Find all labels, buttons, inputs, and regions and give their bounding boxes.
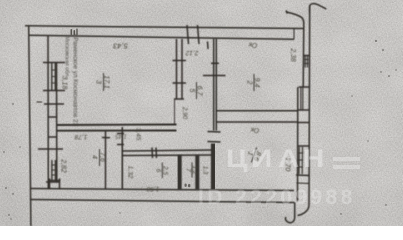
right wall glazing line mid xyxy=(301,87,303,110)
bath label 6/2,5 xyxy=(161,163,163,179)
kitchen door leaf xyxy=(174,99,176,125)
left window glazing bar lower ladder xyxy=(52,160,56,180)
closet right thick dark wall xyxy=(211,144,216,190)
hall wall tick y133.5 xyxy=(117,133,124,135)
left window tick y137 xyxy=(48,136,57,138)
bath top wall lower line xyxy=(122,154,213,157)
svg-text:2,82: 2,82 xyxy=(60,158,67,173)
right wall tick y87 xyxy=(299,86,310,88)
room 3 label 3/17,1 xyxy=(103,73,105,91)
top wall right end cap xyxy=(293,28,295,39)
watermark logo bars xyxy=(333,157,360,162)
svg-text:г.Раменское ул.Космонавтов 23: г.Раменское ул.Космонавтов 23 xyxy=(72,34,79,126)
faint residue text near wc bottom xyxy=(185,184,191,188)
right wall glazing bar lower ladder xyxy=(299,147,303,174)
right exterior wall: outer line xyxy=(308,5,311,205)
svg-text:Ок: Ок xyxy=(250,126,260,134)
room 2 label 2/9,4 xyxy=(253,74,255,91)
svg-text:1,3: 1,3 xyxy=(202,166,208,175)
wc/closet divider dark band xyxy=(195,155,199,190)
kitchen wall door tick y141.5 xyxy=(208,141,221,144)
left window tick y104 xyxy=(44,103,64,105)
left window glazing bar upper ladder xyxy=(52,63,56,90)
top wall dim tick x187.5 xyxy=(187,25,189,44)
room number fraction labels xyxy=(91,73,263,178)
svg-text:1,32: 1,32 xyxy=(127,166,134,179)
bottom exterior wall: lower line xyxy=(30,200,295,203)
left window tick y117 xyxy=(48,116,57,118)
left exterior wall: inner line xyxy=(47,36,49,189)
svg-text:1,2: 1,2 xyxy=(191,165,198,174)
right wall tick y122.5 xyxy=(298,122,309,124)
svg-text:1,50: 1,50 xyxy=(146,185,159,192)
svg-text:1,45: 1,45 xyxy=(115,133,127,139)
bottom break outer curve xyxy=(298,205,310,216)
interior main wall upper line xyxy=(57,124,177,127)
small tick below top wall x207.5 xyxy=(207,42,210,50)
corridor tick near x105 xyxy=(102,137,110,139)
small tick left wall y102 xyxy=(37,101,43,103)
bottom exterior wall: upper line xyxy=(30,189,294,191)
kitchen left wall cap xyxy=(174,98,184,100)
right exterior wall: inner line lower xyxy=(297,87,299,202)
room 1 label 1/8,6 (slanted) xyxy=(244,145,263,165)
room 4 label 4/7,6 xyxy=(99,149,101,166)
right wall tick y146 xyxy=(297,145,310,147)
right wall tick y110 xyxy=(298,109,309,111)
svg-text:2,90: 2,90 xyxy=(181,106,188,120)
top break squiggle left curve xyxy=(286,12,304,24)
bath top wall upper line xyxy=(122,150,213,151)
svg-text:Московская обл.: Московская обл. xyxy=(64,36,70,78)
bottom break inner curve with hook xyxy=(285,203,294,223)
kitchen dim tick y75.5 xyxy=(203,75,226,77)
wall room1/room2 upper line xyxy=(216,110,298,112)
stamp fragment poking into wall band xyxy=(71,29,78,36)
svg-text:2,12: 2,12 xyxy=(185,49,199,56)
watermark ЦИАН xyxy=(226,145,248,174)
svg-text:3: 3 xyxy=(95,80,102,84)
left wall bottom cap rectangle xyxy=(49,179,61,190)
scan speckles xyxy=(3,40,396,220)
address stamp rotated text column xyxy=(64,34,79,126)
svg-text:5,43: 5,43 xyxy=(112,42,127,51)
wall room1/room2 lower line xyxy=(216,121,298,123)
left window tick y149 wide xyxy=(38,148,63,150)
top wall dim tick x198 xyxy=(198,25,200,44)
hall wall tick y144.5 xyxy=(117,144,124,146)
kitchen left wall line a xyxy=(176,39,178,99)
kitchen left wall tick y83 xyxy=(173,82,187,84)
left window tick y182 xyxy=(46,181,60,183)
hall wall x122.3 xyxy=(121,127,123,189)
right wall glazing bar upper ladder xyxy=(305,56,307,68)
svg-text:5: 5 xyxy=(188,89,195,93)
svg-text:3,45: 3,45 xyxy=(135,128,142,141)
right wall tick y175 xyxy=(296,174,310,177)
top exterior wall: outer line xyxy=(25,26,304,29)
top exterior wall: inner line xyxy=(29,35,294,39)
svg-text:2,38: 2,38 xyxy=(289,47,296,62)
left window tick y90.5 xyxy=(43,90,65,92)
svg-text:4: 4 xyxy=(91,155,98,159)
kitchen left wall line b xyxy=(181,39,183,99)
left exterior wall: outer line xyxy=(29,26,31,226)
left wall window strip line xyxy=(56,62,58,182)
svg-text:7: 7 xyxy=(185,168,192,172)
wc label 7/1,2 xyxy=(191,163,193,178)
svg-text:1,78: 1,78 xyxy=(74,133,87,140)
svg-text:2,5: 2,5 xyxy=(161,165,168,175)
bath door tick a xyxy=(151,148,154,159)
kitchen label 5/6,7 xyxy=(196,82,198,99)
right wall tick y55.5 xyxy=(303,55,310,57)
kitchen left wall tick y60.5 xyxy=(173,60,187,62)
right wall channel line upper xyxy=(302,24,305,87)
svg-text:9,4: 9,4 xyxy=(253,78,260,88)
svg-text:Ок: Ок xyxy=(248,41,258,49)
svg-text:6,7: 6,7 xyxy=(196,86,203,97)
right wall tick y183 xyxy=(296,182,309,184)
corridor wall x105.5 xyxy=(105,131,107,189)
bath/wc divider dark band xyxy=(177,155,181,190)
top break squiggle left curve start blob xyxy=(286,11,288,14)
kitchen right wall tick y63 xyxy=(211,62,219,64)
bath door tick b xyxy=(155,148,158,159)
kitchen right wall double xyxy=(214,39,217,131)
svg-text:7,6: 7,6 xyxy=(99,152,106,162)
kitchen wall door tick y131.5 xyxy=(208,131,221,134)
svg-text:2: 2 xyxy=(246,80,253,85)
svg-text:17,1: 17,1 xyxy=(103,75,110,89)
watermark ID number xyxy=(198,186,356,210)
left window tick y62.5 xyxy=(43,62,65,64)
interior main wall lower line xyxy=(57,130,177,132)
top break squiggle right curve xyxy=(310,4,327,13)
svg-text:6: 6 xyxy=(155,169,162,173)
